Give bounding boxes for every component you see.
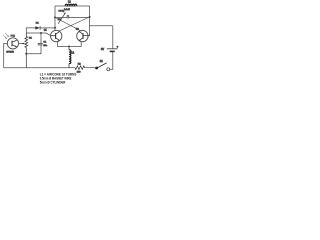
svg-text:Q1: Q1 — [44, 29, 48, 31]
svg-text:9V: 9V — [101, 48, 104, 51]
phototransistor PT1 circle — [7, 38, 18, 49]
phototransistor light arrows — [3, 33, 9, 39]
wire tank right segment — [69, 16, 90, 18]
svg-text:100: 100 — [77, 72, 81, 74]
wire cross-couple B — [55, 17, 81, 31]
wire base rail — [26, 33, 51, 36]
svg-text:5mm Ø CYLINDER: 5mm Ø CYLINDER — [40, 81, 66, 85]
node C1 top dot — [40, 32, 42, 34]
wire phototransistor left lead — [4, 44, 8, 68]
potentiometer wiper arrowhead — [23, 43, 26, 45]
transistor Q1 internals — [51, 32, 60, 41]
inductor L1 vertical coil — [69, 46, 71, 67]
svg-text:R1: R1 — [29, 38, 33, 40]
capacitor C1 stem bottom — [26, 45, 41, 54]
node junction dot right y16.9 — [89, 16, 91, 18]
wire resistor to coil node — [69, 67, 74, 69]
wire diode branch — [26, 28, 35, 33]
battery B1 long plate — [107, 48, 118, 50]
wire battery to switch — [110, 52, 113, 69]
diode D1 — [35, 26, 40, 29]
switch S1 pivot dot — [95, 67, 98, 70]
wire top rail left — [55, 5, 65, 7]
potentiometer R1 body zigzag — [25, 33, 28, 68]
svg-text:C3 5p: C3 5p — [59, 10, 66, 12]
svg-text:10n: 10n — [43, 45, 47, 47]
inductor L2 top coil — [65, 4, 77, 6]
svg-text:C1: C1 — [43, 42, 47, 44]
capacitor C3 trimmer arrow — [58, 12, 66, 23]
svg-text:D1: D1 — [36, 23, 40, 25]
svg-text:PT1: PT1 — [11, 36, 16, 38]
svg-text:L1: L1 — [72, 51, 75, 54]
capacitor C1 plates — [38, 43, 43, 45]
switch S1 contact circle — [107, 68, 110, 71]
capacitor C1 stem top — [40, 33, 42, 43]
svg-text:S1: S1 — [100, 60, 104, 63]
svg-text:R2: R2 — [78, 64, 82, 66]
battery B1 short plate — [110, 50, 115, 52]
switch S1 lever — [97, 63, 107, 68]
transistor Q1 circle — [51, 30, 62, 41]
node C1 to R1 dot — [25, 53, 27, 55]
wire tank left segment — [55, 16, 67, 18]
svg-text:0.1uH: 0.1uH — [64, 9, 70, 11]
capacitor C3 variable plates — [67, 15, 69, 19]
wire cross-couple A — [59, 17, 90, 31]
svg-text:BPW40: BPW40 — [6, 52, 14, 54]
svg-text:+: + — [117, 45, 119, 49]
wire switch to resistor — [86, 67, 97, 69]
phototransistor PT1 internals — [12, 40, 17, 47]
wire right collector vertical — [89, 6, 91, 36]
wire bottom rail — [4, 67, 69, 69]
svg-text:L2: L2 — [68, 0, 71, 3]
wire emitter rail — [57, 41, 81, 46]
wire battery branch vertical — [112, 26, 114, 49]
wire diode to collector — [40, 27, 55, 29]
wire wiper from phototransistor — [19, 43, 24, 45]
transistor Q2 internals — [79, 32, 90, 41]
node junction dot left y27.7 — [54, 27, 56, 29]
wire left collector vertical — [54, 6, 56, 31]
transistor Q2 circle — [77, 30, 88, 41]
wire top rail right — [77, 5, 90, 7]
resistor R2 zigzag — [74, 66, 86, 70]
node emitter rail dot — [68, 45, 70, 47]
node junction dot left y17 — [54, 16, 56, 18]
wire battery branch horizontal — [90, 25, 113, 27]
